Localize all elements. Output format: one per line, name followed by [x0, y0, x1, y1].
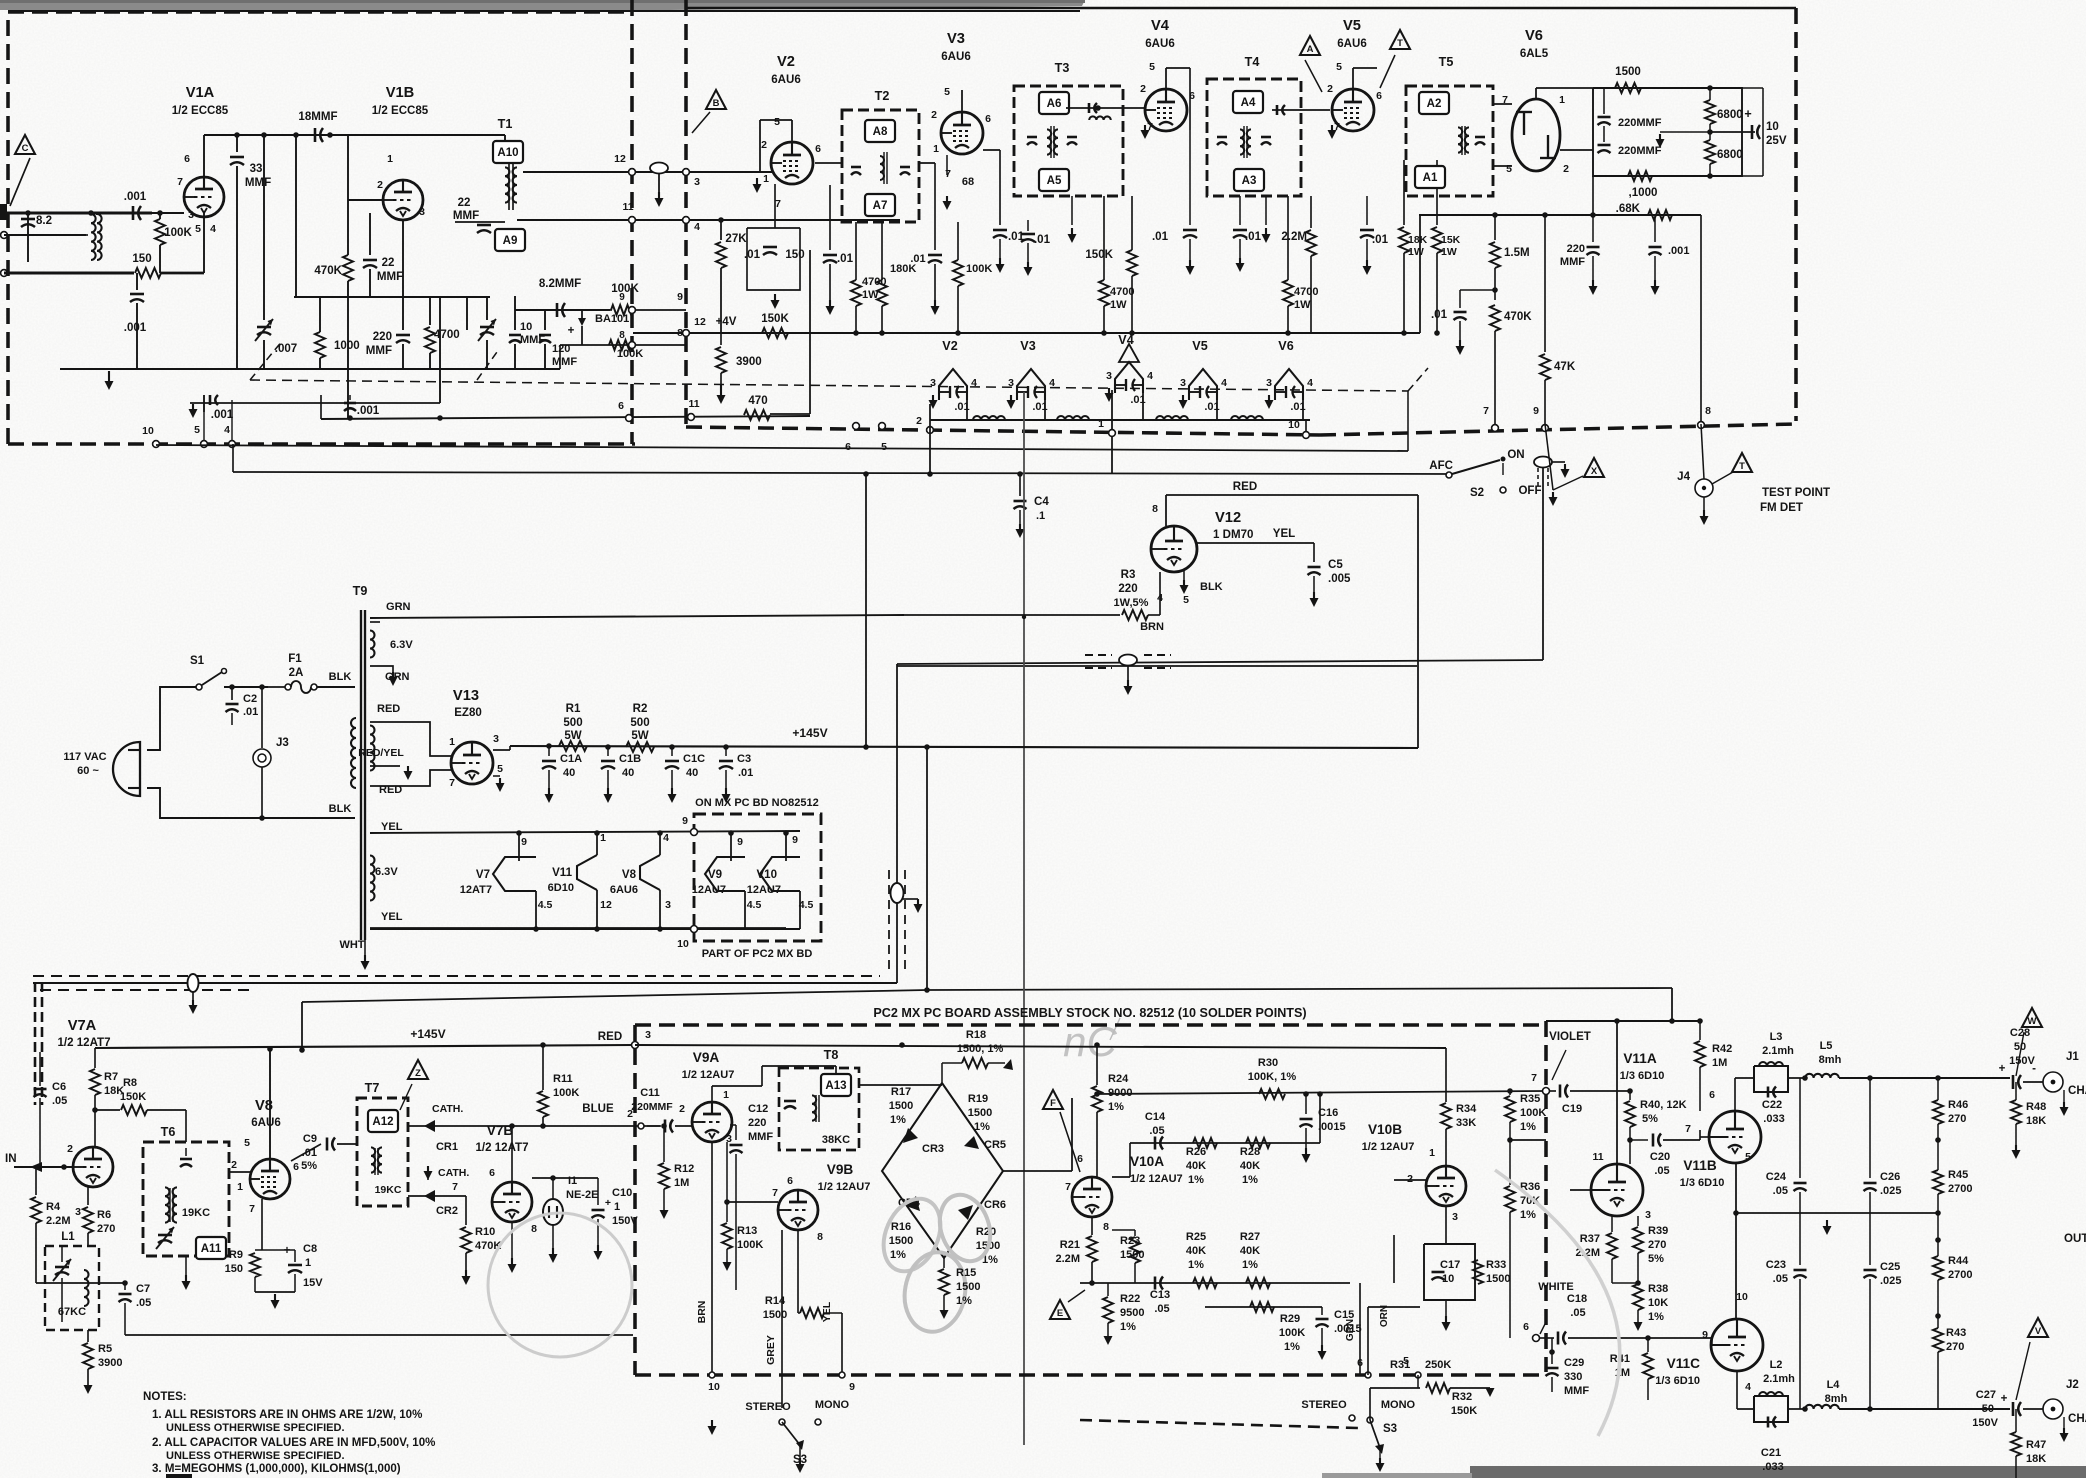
svg-text:22: 22 [458, 197, 471, 209]
mixer line 8.2MMF cap [515, 309, 610, 311]
svg-text:R32: R32 [1452, 1391, 1472, 1403]
svg-text:18K: 18K [2026, 1453, 2046, 1465]
svg-text:V12: V12 [1215, 510, 1241, 526]
R23 1500 [1134, 1230, 1136, 1236]
svg-text:YEL: YEL [1273, 528, 1295, 540]
svg-text:40: 40 [622, 767, 634, 779]
plate rail V1A-V1B [204, 134, 505, 136]
triangle X [1584, 458, 1604, 477]
svg-text:6: 6 [1376, 90, 1382, 102]
svg-text:1: 1 [1559, 94, 1565, 106]
svg-text:R29: R29 [1280, 1313, 1300, 1325]
svg-text:.001: .001 [357, 405, 380, 417]
svg-text:BLK: BLK [329, 803, 352, 815]
antenna coil [91, 214, 96, 260]
diode ring [882, 1083, 1003, 1258]
svg-text:WHT: WHT [339, 939, 364, 951]
svg-text:.01: .01 [243, 706, 258, 718]
diode BA101 [578, 318, 586, 326]
transformer T7 [357, 1098, 408, 1206]
R47 18K [2011, 1432, 2021, 1456]
AFC shield connector [1534, 457, 1552, 468]
GRN line right [1349, 1283, 1351, 1307]
svg-text:1W,5%: 1W,5% [1114, 597, 1149, 609]
svg-text:4: 4 [1221, 377, 1227, 389]
svg-text:5: 5 [244, 1137, 250, 1149]
svg-text:C3: C3 [737, 753, 751, 765]
svg-text:150K: 150K [761, 313, 789, 325]
svg-text:V6: V6 [1278, 339, 1293, 353]
transformer T6 [143, 1142, 229, 1256]
svg-text:C10: C10 [612, 1187, 632, 1199]
svg-text:12AT7: 12AT7 [460, 884, 492, 896]
svg-text:5: 5 [881, 441, 887, 453]
svg-text:C16: C16 [1318, 1107, 1338, 1119]
svg-text:22: 22 [382, 257, 395, 269]
svg-text:L1: L1 [61, 1231, 75, 1243]
svg-text:.05: .05 [1654, 1165, 1669, 1177]
svg-text:40K: 40K [1240, 1245, 1260, 1257]
svg-text:V: V [2035, 1326, 2042, 1337]
svg-text:220: 220 [748, 1117, 766, 1129]
resistor 470K det [1490, 305, 1500, 331]
svg-text:1/3 6D10: 1/3 6D10 [1620, 1070, 1665, 1082]
svg-text:10: 10 [1442, 1273, 1454, 1285]
svg-text:5: 5 [1403, 1355, 1409, 1367]
svg-text:6.3V: 6.3V [390, 639, 413, 651]
svg-text:7: 7 [1065, 1181, 1071, 1193]
V6 plate wires [1535, 88, 1537, 99]
svg-text:470K: 470K [1504, 311, 1532, 323]
svg-text:RED: RED [598, 1031, 622, 1043]
svg-text:1 DM70: 1 DM70 [1213, 529, 1253, 541]
svg-text:.1: .1 [1036, 510, 1045, 522]
svg-text:270: 270 [1946, 1341, 1964, 1353]
transformer T5 [1406, 86, 1493, 196]
svg-text:R17: R17 [891, 1086, 911, 1098]
heater V11 [577, 855, 597, 890]
svg-text:2. ALL CAPACITOR VALUES ARE IN: 2. ALL CAPACITOR VALUES ARE IN MFD,500V,… [152, 1437, 435, 1449]
V1B bottom line 470 [190, 402, 440, 404]
ground left cluster [60, 368, 330, 370]
svg-text:R13: R13 [737, 1225, 757, 1237]
svg-text:FM DET: FM DET [1760, 502, 1803, 514]
svg-text:1/3 6D10: 1/3 6D10 [1655, 1375, 1700, 1387]
svg-text:X: X [1591, 466, 1598, 477]
tube V12 [1151, 526, 1197, 572]
svg-text:V3: V3 [947, 31, 965, 47]
capacitor 33MMF [236, 135, 238, 152]
svg-text:9: 9 [619, 292, 625, 303]
svg-text:1%: 1% [1520, 1121, 1536, 1133]
svg-text:S1: S1 [190, 655, 205, 667]
svg-text:B: B [713, 98, 720, 109]
svg-text:6AL5: 6AL5 [1520, 48, 1549, 60]
svg-text:7: 7 [249, 1203, 255, 1215]
svg-text:-: - [2032, 1063, 2036, 1075]
svg-text:+4V: +4V [716, 316, 737, 328]
duodiode V6 [1512, 99, 1560, 171]
svg-text:R44: R44 [1948, 1255, 1969, 1267]
svg-text:2: 2 [931, 109, 937, 121]
svg-text:RED: RED [1233, 481, 1257, 493]
svg-text:25V: 25V [1766, 135, 1787, 147]
svg-text:C27: C27 [1976, 1389, 1996, 1401]
svg-text:R7: R7 [104, 1071, 118, 1083]
svg-text:.033: .033 [1762, 1461, 1783, 1473]
line y472 [233, 472, 1452, 474]
svg-text:CHA: CHA [2068, 1085, 2086, 1097]
B+ feed to output tubes [926, 747, 928, 990]
R46 270 [1933, 1100, 1943, 1124]
V7A triode [73, 1147, 113, 1187]
svg-text:8.2: 8.2 [36, 215, 52, 227]
svg-text:V2: V2 [777, 54, 795, 70]
svg-text:9: 9 [849, 1381, 855, 1393]
svg-text:50: 50 [1982, 1403, 1994, 1415]
R21 2.2M [1091, 1217, 1093, 1235]
V7B plate line [532, 1177, 598, 1179]
svg-text:RED: RED [377, 703, 400, 715]
filter cap C1B [607, 747, 609, 756]
svg-text:6: 6 [1357, 1357, 1363, 1369]
svg-text:7: 7 [772, 1187, 778, 1199]
svg-text:100K, 1%: 100K, 1% [1248, 1071, 1297, 1083]
svg-text:V11C: V11C [1667, 1356, 1701, 1371]
svg-text:3: 3 [1452, 1211, 1458, 1223]
pins 7 9 8 [1492, 425, 1499, 432]
svg-text:.001: .001 [124, 191, 147, 203]
svg-text:7: 7 [449, 777, 455, 789]
svg-text:CR1: CR1 [436, 1141, 458, 1153]
svg-text:CR5: CR5 [984, 1139, 1006, 1151]
svg-text:1M: 1M [674, 1177, 689, 1189]
R5 3900 [87, 1330, 89, 1342]
pencil scribbles [873, 1190, 951, 1281]
svg-text:C7: C7 [136, 1283, 150, 1295]
svg-text:WHITE: WHITE [1538, 1281, 1574, 1293]
svg-text:9: 9 [1533, 405, 1539, 417]
svg-text:W: W [2028, 1016, 2037, 1027]
heater V8 [640, 855, 660, 890]
svg-text:T: T [1739, 461, 1745, 472]
transformer T4 [1207, 79, 1301, 196]
R3 220 resistor [904, 614, 1120, 616]
svg-text:1/2 ECC85: 1/2 ECC85 [372, 105, 429, 117]
svg-text:I1: I1 [568, 1175, 577, 1187]
svg-text:C20: C20 [1650, 1151, 1670, 1163]
svg-text:2: 2 [377, 179, 383, 191]
svg-text:9500: 9500 [1120, 1307, 1145, 1319]
svg-text:C21: C21 [1761, 1447, 1781, 1459]
svg-text:4700: 4700 [1110, 286, 1135, 298]
svg-text:C29: C29 [1564, 1357, 1584, 1369]
svg-text:V4: V4 [1151, 18, 1170, 34]
W triangle [2022, 1008, 2042, 1027]
cap .001 det [1654, 215, 1656, 242]
resistor 4700 1W V3 [1103, 196, 1105, 280]
svg-text:8mh: 8mh [1819, 1054, 1842, 1066]
svg-text:9: 9 [521, 836, 527, 848]
cap .01 det [1460, 289, 1495, 291]
svg-text:18K: 18K [1408, 234, 1428, 246]
svg-text:V4: V4 [1118, 333, 1133, 347]
svg-text:2.2M: 2.2M [1056, 1253, 1081, 1265]
gang dashed link [250, 380, 1408, 391]
svg-text:9: 9 [737, 836, 743, 848]
svg-text:100K: 100K [164, 227, 192, 239]
svg-text:330: 330 [1564, 1371, 1582, 1383]
varcap .007 [263, 135, 265, 320]
svg-text:1: 1 [387, 153, 393, 165]
svg-text:C13: C13 [1150, 1289, 1170, 1301]
svg-text:5W: 5W [631, 730, 648, 742]
svg-text:Z: Z [415, 1068, 421, 1079]
svg-text:2.1mh: 2.1mh [1762, 1045, 1794, 1057]
svg-text:.01: .01 [744, 249, 761, 261]
svg-text:V1A: V1A [186, 85, 215, 101]
svg-text:V5: V5 [1343, 18, 1361, 34]
svg-text:PC2 MX PC BOARD ASSEMBLY S: PC2 MX PC BOARD ASSEMBLY STOCK NO. 82512… [873, 1006, 1306, 1020]
BLUE line [408, 1125, 660, 1127]
R38 10K [1633, 1284, 1643, 1310]
svg-text:4700: 4700 [1294, 286, 1319, 298]
V11A grid line [1570, 1189, 1591, 1191]
svg-text:STEREO: STEREO [745, 1401, 791, 1413]
R6 270 [87, 1187, 89, 1205]
svg-text:1%: 1% [1520, 1209, 1536, 1221]
capacitor 220MMF [402, 296, 404, 330]
svg-text:2.2M: 2.2M [1281, 231, 1307, 243]
svg-text:L5: L5 [1820, 1040, 1833, 1052]
svg-text:R25: R25 [1186, 1231, 1206, 1243]
T1 secondary wires [523, 171, 772, 173]
svg-text:1%: 1% [974, 1121, 990, 1133]
triode V1A [184, 177, 224, 217]
svg-text:CATH.: CATH. [438, 1167, 469, 1179]
svg-text:A7: A7 [873, 200, 888, 212]
svg-text:12: 12 [600, 899, 612, 911]
svg-text:NE-2E: NE-2E [566, 1189, 598, 1201]
svg-text:6AU6: 6AU6 [1337, 38, 1367, 50]
svg-text:6: 6 [1709, 1089, 1715, 1101]
R34 33K [1445, 1048, 1447, 1102]
svg-text:100K: 100K [966, 263, 992, 275]
capacitor 18MMF [314, 128, 317, 142]
svg-text:1W: 1W [1110, 299, 1127, 311]
svg-text:4: 4 [210, 223, 216, 235]
svg-text:1: 1 [763, 173, 769, 185]
shielded audio cable left [33, 982, 897, 984]
svg-text:.01: .01 [738, 767, 753, 779]
C10 cap [597, 1178, 599, 1205]
svg-text:6: 6 [815, 143, 821, 155]
matrix bottom line [1080, 1282, 1350, 1284]
resistors 6800 [1705, 100, 1715, 124]
C23 C25 [1799, 1213, 1801, 1265]
neon I1 [543, 1199, 563, 1225]
svg-text:4: 4 [694, 221, 700, 233]
svg-text:2: 2 [1140, 83, 1146, 95]
svg-text:10: 10 [520, 321, 532, 333]
svg-text:F: F [1050, 1098, 1056, 1109]
svg-text:T7: T7 [365, 1081, 380, 1095]
svg-text:150V: 150V [1972, 1417, 1998, 1429]
heater V10 [760, 857, 800, 891]
cap 220MMF agc [1592, 215, 1594, 242]
svg-text:1500: 1500 [889, 1100, 914, 1112]
resistor 68 [946, 155, 948, 175]
svg-text:150: 150 [225, 1263, 243, 1275]
svg-text:UNLESS OTHERWISE SPECIFIED.: UNLESS OTHERWISE SPECIFIED. [166, 1450, 345, 1462]
capacitor .001 lower [136, 273, 138, 290]
svg-text:+: + [568, 325, 575, 337]
svg-text:220MMF: 220MMF [1618, 145, 1662, 157]
svg-text:C12: C12 [748, 1103, 768, 1115]
svg-text:1%: 1% [1188, 1174, 1204, 1186]
svg-text:C17: C17 [1440, 1259, 1460, 1271]
svg-text:T5: T5 [1439, 55, 1454, 69]
svg-text:NOTES:: NOTES: [143, 1391, 187, 1403]
R7 18K [94, 1048, 96, 1068]
svg-text:1: 1 [600, 832, 606, 844]
svg-text:C8: C8 [303, 1243, 317, 1255]
R15 1500 [943, 1258, 945, 1268]
svg-text:220MMF: 220MMF [1618, 117, 1662, 129]
svg-text:4: 4 [1745, 1381, 1751, 1393]
heater V7 [493, 857, 536, 891]
svg-text:60 ~: 60 ~ [77, 765, 99, 777]
svg-text:5: 5 [1183, 594, 1189, 606]
svg-text:1/3 6D10: 1/3 6D10 [1680, 1177, 1725, 1189]
capacitor .01 V2 plate [829, 185, 831, 250]
svg-text:E: E [1057, 1308, 1063, 1319]
svg-text:19KC: 19KC [182, 1207, 210, 1219]
svg-text:270: 270 [1648, 1239, 1666, 1251]
svg-text:C26: C26 [1880, 1171, 1900, 1183]
svg-text:R37: R37 [1580, 1233, 1600, 1245]
svg-text:R48: R48 [2026, 1101, 2046, 1113]
osc ground bus [330, 368, 560, 370]
detector load network [1593, 88, 1742, 176]
svg-text:4700: 4700 [434, 329, 460, 341]
R37 2.2M [1611, 1216, 1613, 1232]
svg-text:38KC: 38KC [822, 1134, 850, 1146]
svg-text:3: 3 [1266, 377, 1272, 389]
plug wires [147, 687, 196, 750]
svg-text:R4: R4 [46, 1201, 61, 1213]
GRN wire pc2 [1394, 1234, 1466, 1236]
svg-text:R16: R16 [891, 1221, 911, 1233]
svg-text:R42: R42 [1712, 1043, 1732, 1055]
red rail inside [635, 1045, 1446, 1048]
capacitor .01 V3 out [983, 149, 1000, 151]
svg-text:CR3: CR3 [922, 1143, 944, 1155]
svg-text:9: 9 [682, 815, 688, 827]
svg-text:MMF: MMF [748, 1131, 773, 1143]
svg-text:500: 500 [563, 717, 582, 729]
svg-text:220MMF: 220MMF [631, 1101, 673, 1113]
F triangle [1043, 1090, 1063, 1109]
svg-text:4.5: 4.5 [747, 899, 762, 911]
V12 YEL line [1197, 542, 1314, 544]
svg-text:117 VAC: 117 VAC [63, 751, 106, 763]
svg-text:7: 7 [775, 198, 781, 210]
svg-text:.0015: .0015 [1318, 1121, 1346, 1133]
svg-text:9: 9 [792, 834, 798, 846]
svg-text:6: 6 [845, 441, 851, 453]
pentode V5 [1332, 89, 1374, 131]
svg-text:3: 3 [1106, 370, 1112, 382]
svg-text:1500, 1%: 1500, 1% [957, 1043, 1004, 1055]
C11 cap [664, 1120, 667, 1133]
svg-text:1500: 1500 [968, 1107, 993, 1119]
.001 cap bottom left [203, 395, 205, 412]
pentode V4 [1145, 89, 1187, 131]
svg-text:.005: .005 [1328, 573, 1351, 585]
svg-text:C1C: C1C [683, 753, 705, 765]
svg-text:A11: A11 [201, 1243, 222, 1255]
svg-text:T3: T3 [1055, 61, 1070, 75]
svg-text:RED/YEL: RED/YEL [358, 747, 404, 759]
svg-text:R2: R2 [633, 703, 648, 715]
resistor 470 [744, 410, 770, 420]
V8 mpx amp [250, 1159, 290, 1199]
svg-text:R21: R21 [1060, 1239, 1080, 1251]
svg-text:A4: A4 [1241, 97, 1256, 109]
svg-text:C11: C11 [640, 1087, 660, 1099]
svg-text:ON MX PC BD NO82512: ON MX PC BD NO82512 [695, 797, 819, 809]
svg-text:1/2 12AU7: 1/2 12AU7 [1130, 1173, 1183, 1185]
svg-text:15K: 15K [1441, 234, 1461, 246]
R22 9500 [1107, 1283, 1109, 1296]
svg-text:R22: R22 [1120, 1293, 1140, 1305]
R39 270 [1637, 1216, 1639, 1226]
svg-text:3900: 3900 [98, 1357, 123, 1369]
R18 line [859, 1084, 942, 1086]
svg-text:A3: A3 [1242, 175, 1257, 187]
shield crossing mid [1119, 655, 1137, 666]
svg-text:MMF: MMF [245, 177, 271, 189]
resistor 4700 1W V5 [1287, 196, 1289, 280]
svg-text:ON: ON [1507, 449, 1524, 461]
svg-text:150: 150 [785, 249, 804, 261]
svg-text:C14: C14 [1145, 1111, 1166, 1123]
svg-text:GREY: GREY [765, 1335, 777, 1365]
svg-text:V11B: V11B [1683, 1158, 1717, 1173]
triangle B [706, 90, 726, 109]
svg-text:1500: 1500 [956, 1281, 981, 1293]
resistor 27K [720, 220, 722, 240]
svg-text:10: 10 [677, 938, 689, 950]
svg-text:7: 7 [945, 168, 951, 180]
pentode V3 [941, 112, 983, 154]
svg-text:5: 5 [497, 763, 503, 775]
tuning gang V6 [1275, 369, 1303, 400]
svg-text:6: 6 [787, 1175, 793, 1187]
svg-text:CATH.: CATH. [432, 1103, 463, 1115]
svg-text:V10: V10 [756, 869, 777, 881]
svg-text:220: 220 [373, 331, 392, 343]
shielded audio cable down [896, 664, 898, 983]
svg-text:6: 6 [618, 400, 624, 412]
C12 cap [735, 1125, 737, 1140]
svg-text:L4: L4 [1827, 1379, 1841, 1391]
shield sleeve [650, 163, 668, 174]
svg-text:+145V: +145V [410, 1027, 445, 1041]
border nodes 12 11 [629, 169, 636, 176]
svg-text:.001: .001 [124, 322, 147, 334]
